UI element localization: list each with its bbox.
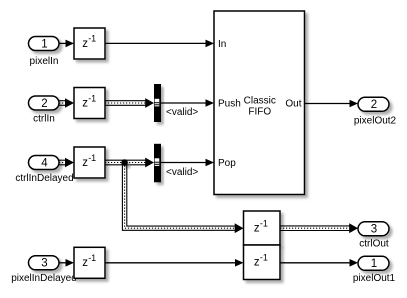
svg-text:-1: -1 — [88, 153, 96, 163]
svg-text:ctrlOut: ctrlOut — [359, 239, 389, 250]
svg-text:-1: -1 — [88, 34, 96, 44]
delay block Z3 (ctrlInDelayed) — [74, 147, 105, 178]
svg-text:2: 2 — [371, 99, 377, 111]
svg-text:Push: Push — [218, 99, 241, 110]
delay block Z6 (pixel out delay) — [244, 245, 281, 280]
wire Z4 to Z6 — [105, 259, 244, 267]
svg-text:Classic: Classic — [244, 95, 276, 106]
inport 4 ctrlInDelayed — [29, 156, 60, 170]
wire inport1 to delay Z1 — [59, 40, 74, 48]
svg-text:pixelOut1: pixelOut1 — [353, 273, 396, 284]
svg-text:-1: -1 — [88, 93, 96, 103]
svg-text:2: 2 — [41, 98, 47, 110]
wire Z6 to outport 1 — [280, 259, 358, 267]
svg-text:3: 3 — [371, 224, 377, 236]
inport 3 pixelInDelayed — [29, 256, 60, 270]
FIFO subsystem block — [214, 11, 305, 195]
outport 2 pixelOut2 — [358, 97, 389, 111]
delay block Z2 (ctrlIn) — [74, 88, 105, 119]
svg-text:<valid>: <valid> — [166, 167, 198, 178]
svg-text:pixelOut2: pixelOut2 — [354, 116, 397, 127]
svg-text:FIFO: FIFO — [248, 106, 271, 117]
bus wire Z5 to outport 3 — [280, 223, 358, 233]
bus wire inport2 to delay Z2 — [59, 98, 74, 108]
svg-text:-1: -1 — [88, 253, 96, 263]
svg-text:1: 1 — [371, 258, 377, 270]
svg-text:<valid>: <valid> — [166, 107, 198, 118]
wire B2 to FIFO Pop — [161, 159, 214, 167]
svg-text:3: 3 — [41, 258, 47, 270]
wire FIFO Out to outport 2 — [304, 100, 358, 108]
svg-text:-1: -1 — [260, 218, 268, 228]
svg-text:ctrlInDelayed: ctrlInDelayed — [15, 173, 73, 184]
svg-text:Out: Out — [285, 99, 301, 110]
wire B1 to FIFO Push — [161, 99, 214, 107]
svg-text:ctrlIn: ctrlIn — [33, 113, 55, 124]
wire inport3 to delay Z4 — [59, 259, 74, 267]
delay block Z1 (pixelIn) — [74, 28, 105, 59]
delay block Z5 (ctrl out delay) — [244, 211, 281, 245]
bus wire inport4 to delay Z3 — [59, 158, 74, 168]
svg-text:4: 4 — [41, 157, 48, 169]
outport 3 ctrlOut — [358, 222, 389, 236]
svg-text:pixelInDelayed: pixelInDelayed — [11, 273, 77, 284]
bus wire Z3 to bus selector B2 — [105, 158, 154, 168]
svg-text:-1: -1 — [260, 253, 268, 263]
bus wire junction down to delay Z5 (ctrl delay) — [122, 163, 243, 234]
svg-text:1: 1 — [41, 38, 47, 50]
bus wire Z2 to bus selector B1 — [105, 98, 154, 108]
svg-text:Pop: Pop — [218, 158, 236, 169]
svg-text:In: In — [218, 39, 226, 50]
bus selector B1 — [154, 84, 161, 122]
wire Z1 to FIFO In — [105, 40, 214, 48]
svg-text:pixelIn: pixelIn — [30, 56, 59, 67]
outport 1 pixelOut1 — [358, 256, 389, 270]
junction node on ctrlInDelayed bus — [121, 159, 128, 166]
delay block Z4 (pixelInDelayed) — [74, 247, 105, 278]
bus selector B2 — [154, 144, 161, 183]
inport 2 ctrlIn — [29, 96, 60, 110]
inport 1 pixelIn — [29, 37, 60, 51]
